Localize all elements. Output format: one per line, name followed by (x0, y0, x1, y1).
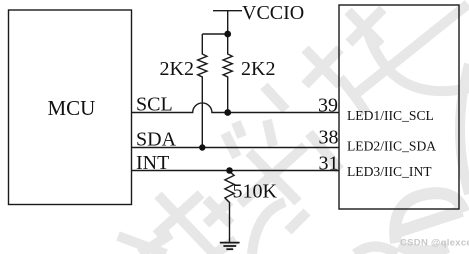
junction node SCL/R2 (224, 109, 231, 116)
svg-text:38: 38 (319, 127, 339, 149)
wire SDA (132, 147, 340, 149)
wire SCL with hop (132, 103, 340, 113)
resistor R2 2K2 right (223, 34, 232, 113)
watermark e glyph bottom-right (395, 193, 464, 243)
wire branch to left resistor (202, 33, 227, 35)
junction node at VCCIO split (224, 31, 231, 38)
svg-text:LED3/IIC_INT: LED3/IIC_INT (347, 164, 432, 179)
svg-text:CSDN @qlexcel: CSDN @qlexcel (400, 238, 469, 249)
watermark small X near 510K (206, 201, 230, 224)
junction node SDA/R1 (199, 144, 205, 150)
IC box (339, 5, 459, 209)
svg-text:SCL: SCL (136, 94, 173, 116)
svg-text:LED1/IIC_SCL: LED1/IIC_SCL (347, 108, 434, 123)
svg-text:INT: INT (136, 152, 169, 174)
svg-text:510K: 510K (233, 181, 278, 203)
svg-text:SDA: SDA (136, 129, 177, 151)
resistor R1 2K2 left (198, 34, 207, 148)
ground (220, 242, 240, 244)
watermark cluster top-right glyph (349, 9, 383, 43)
svg-text:2K2: 2K2 (241, 58, 275, 80)
svg-text:31: 31 (319, 153, 339, 175)
svg-text:MCU: MCU (48, 96, 96, 120)
wire VCCIO stem (227, 11, 229, 34)
MCU box (9, 10, 132, 205)
watermark cluster bottom-left X (156, 194, 201, 235)
watermark strokes (118, 4, 469, 254)
wire INT (132, 170, 340, 172)
svg-text:2K2: 2K2 (160, 58, 194, 80)
svg-text:39: 39 (318, 95, 338, 117)
svg-text:VCCIO: VCCIO (242, 2, 304, 24)
watermark cluster right of 510K (240, 146, 305, 204)
svg-text:LED2/IIC_SDA: LED2/IIC_SDA (347, 139, 436, 154)
power bar VCCIO (213, 10, 242, 12)
resistor R3 510K (225, 171, 234, 243)
junction node INT/R3 (226, 167, 233, 174)
watermark cluster upper middle X (305, 49, 340, 85)
